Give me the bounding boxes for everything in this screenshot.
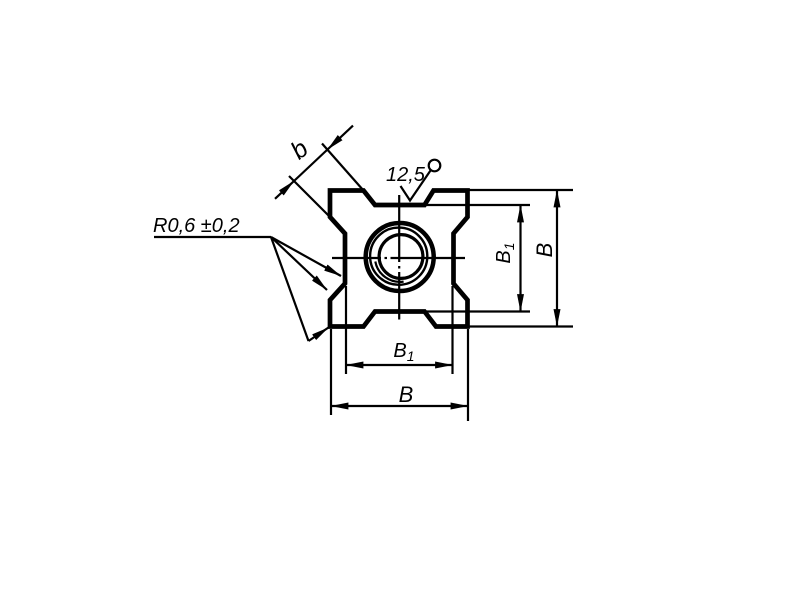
center hole inner circle [379,235,423,279]
dimension B right line [556,190,558,327]
right extension line bottom flat [426,310,530,312]
roughness mark circle [429,160,441,172]
dimension b extension line 1 [322,144,364,191]
roughness mark check [401,171,431,201]
svg-text:B: B [399,382,414,407]
part outline (square insert with side notches) [330,191,468,327]
right extension line top edge [469,189,573,191]
dimension b extension line 2 [289,176,330,217]
dimension B bottom line [331,405,468,407]
center hole outer circle [366,223,434,291]
radius note shelf [154,236,271,238]
svg-text:12,5: 12,5 [386,164,426,186]
dimension B1 bottom line [346,364,453,366]
svg-text:R0,6 ±0,2: R0,6 ±0,2 [153,215,240,237]
bottom extension line left edge [330,329,332,415]
svg-text:B: B [532,243,557,258]
radius leader 1 [271,237,341,276]
right extension line bottom edge [469,325,573,327]
dimension b line lower arrow [275,181,294,199]
horizontal centerline [332,257,465,259]
center hole extra arc [375,262,403,282]
bottom extension line right notch flat [451,286,453,374]
vertical centerline [398,195,400,320]
bottom extension line left notch flat [345,286,347,374]
center hole chamfer circle [370,228,427,285]
radius leader 3 [271,237,309,341]
dimension B1 right line [519,205,521,312]
right extension line top flat [426,204,530,206]
dimension b line upper arrow [328,126,354,150]
radius leader 2 [271,237,327,290]
dimension b line middle [294,150,328,182]
bottom extension line right edge [467,329,469,421]
